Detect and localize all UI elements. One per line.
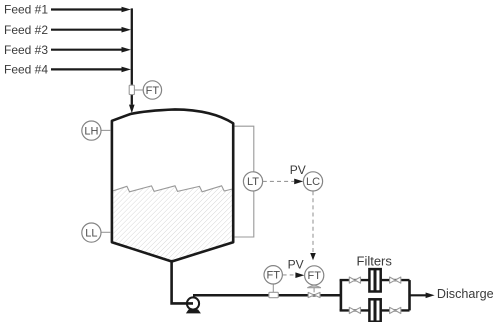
instrument LC (level controller) [303,172,322,191]
wire FE2 to FT stub [272,284,274,292]
svg-text:FT: FT [266,270,280,282]
valve V3 (bottom-left) [349,307,360,313]
pump [187,297,199,309]
wire feed 4 arrow [51,67,131,73]
svg-text:Filters: Filters [357,253,393,268]
wire discharge arrow [410,293,435,299]
svg-text:Feed #3: Feed #3 [4,43,48,57]
arrow into FT2 [295,272,304,278]
svg-text:FT: FT [307,270,321,282]
svg-text:Feed #1: Feed #1 [4,3,48,17]
svg-text:LC: LC [306,176,320,188]
signal FT1 to FT2 dashed [283,274,294,276]
wire tank outlet [172,261,193,304]
svg-text:LT: LT [247,176,259,188]
arrow into LC [294,179,303,185]
filter header left junction [340,280,343,310]
wire feed 3 arrow [51,47,131,53]
svg-text:PV: PV [290,163,306,177]
svg-text:FT: FT [146,85,160,97]
instrument LT (level transmitter) [243,172,262,191]
signal LT to LC dashed [263,180,294,182]
wire feed header vertical [129,8,135,113]
signal LC down dashed [312,191,314,253]
wire FE to FT stub [135,89,144,91]
filter F1 (top) [369,269,380,291]
control valve body [308,292,320,297]
flow element FE (top orifice) [129,85,134,94]
liquid surface line [113,186,232,192]
pump base [186,309,201,313]
instrument FT (feed flow transmitter) [143,81,161,99]
instrument LL (level low) [82,223,111,242]
tank vessel outline [112,109,233,261]
valve V2 (top-right) [390,277,401,283]
svg-text:Discharge: Discharge [437,287,494,301]
valve V1 (top-left) [349,277,360,283]
wire bottom filter branch [340,309,410,311]
filter F2 (bottom) [369,299,380,321]
arrow down from LC [310,253,316,260]
wire feed 2 arrow [51,27,131,33]
svg-text:Feed #4: Feed #4 [4,63,48,77]
filter header right junction [408,280,411,310]
instrument LH (level high) [82,121,111,140]
instrument FT2 (flow controller valve head) [305,266,324,285]
wire pump discharge to filter header [193,294,342,297]
wire top filter branch [340,279,410,281]
svg-text:Feed #2: Feed #2 [4,23,48,37]
valve V4 (bottom-right) [390,307,401,313]
svg-text:PV: PV [288,257,304,271]
tank liquid hatch fill [113,186,232,261]
wire feed 1 arrow [51,7,131,13]
svg-text:LH: LH [84,125,98,137]
instrument FT1 (flow transmitter) [264,266,282,284]
svg-text:LL: LL [85,227,97,239]
level standpipe bracket [235,126,254,237]
valve actuator [307,285,321,293]
flow element FE2 (orifice) [269,292,278,297]
